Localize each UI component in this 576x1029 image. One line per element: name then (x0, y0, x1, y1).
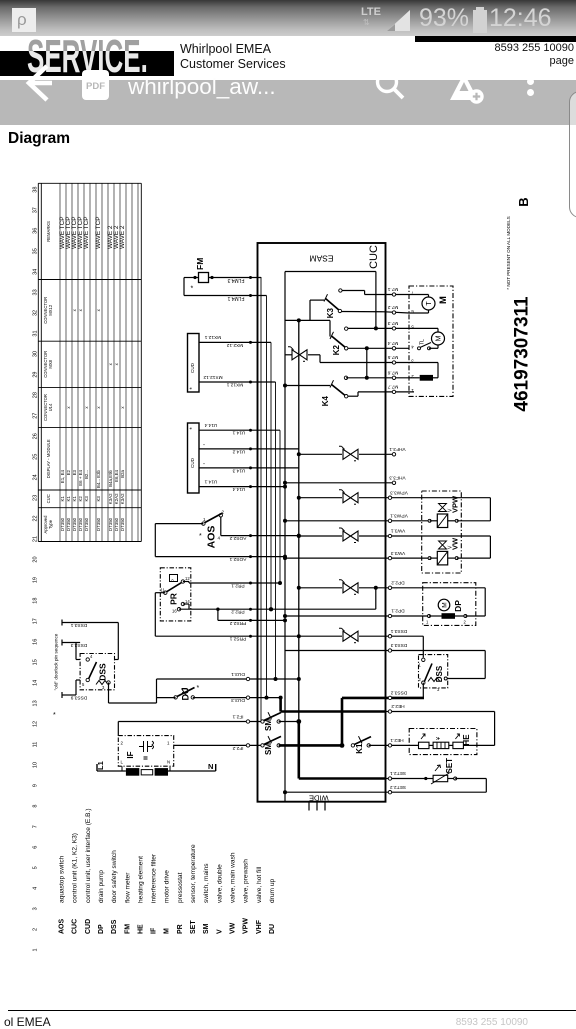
svg-text:VPW: VPW (451, 495, 460, 513)
svg-text:VHF3.3: VHF3.3 (389, 475, 406, 481)
wire U14.4 (199, 478, 287, 492)
svg-text:T: T (426, 301, 433, 306)
wire line bus L (296, 320, 385, 778)
svg-text:switch, mains: switch, mains (203, 863, 210, 903)
svg-text:x: x (114, 362, 119, 365)
board bottom connector stubs (309, 802, 325, 811)
connector MX12 (CUD) (188, 334, 200, 393)
svg-text:pressostat: pressostat (177, 872, 184, 903)
svg-text:U14.4: U14.4 (204, 422, 217, 428)
svg-text:M7.7: M7.7 (387, 384, 398, 390)
svg-text:interference filter: interference filter (151, 853, 158, 903)
svg-text:valve, prewash: valve, prewash (243, 859, 250, 903)
svg-text:PRS2.2: PRS2.2 (229, 620, 246, 626)
door safety switch DSS (right) (419, 655, 448, 692)
svg-text:DT350: DT350 (114, 517, 119, 531)
svg-text:HE2.2: HE2.2 (391, 703, 405, 709)
svg-text:M7.2: M7.2 (387, 304, 398, 310)
svg-text:AOS2.1: AOS2.1 (229, 556, 246, 562)
svg-text:M7.5: M7.5 (387, 354, 398, 360)
svg-text:B2...: B2... (84, 470, 89, 479)
status bar (0, 0, 576, 36)
svg-text:25: 25 (33, 454, 39, 460)
wire DSS3.1 with triac (299, 628, 424, 658)
wire K4 to M7.7 (348, 392, 359, 396)
svg-text:DISPLAY - MODULE: DISPLAY - MODULE (46, 439, 51, 478)
svg-text:U14.4: U14.4 (232, 486, 245, 492)
svg-text:DT350: DT350 (78, 517, 83, 531)
svg-text:HE: HE (462, 734, 471, 746)
svg-text:8: 8 (33, 805, 39, 808)
svg-text:2: 2 (121, 741, 124, 746)
svg-text:CUC: CUC (46, 494, 51, 503)
svg-text:VPW3.3: VPW3.3 (390, 489, 408, 495)
svg-text:1: 1 (167, 741, 170, 746)
svg-text:P: P (171, 579, 176, 582)
svg-text:DSS3.1: DSS3.1 (70, 622, 87, 628)
bottom footer of page (8, 1010, 576, 1012)
svg-text:16: 16 (33, 639, 39, 645)
mains switch SM contact 1 (261, 712, 299, 731)
svg-text:K1: K1 (355, 743, 364, 754)
relay K3 (324, 289, 342, 318)
svg-text:M7.4: M7.4 (387, 340, 398, 346)
wire M7.7 (358, 384, 414, 394)
svg-text:TL: TL (420, 339, 426, 345)
svg-text:MX12.1: MX12.1 (204, 334, 221, 340)
svg-text:M: M (441, 602, 448, 607)
svg-text:FM: FM (195, 258, 205, 270)
svg-text:PR2.1: PR2.1 (231, 582, 245, 588)
svg-text:DSS: DSS (98, 663, 108, 681)
svg-text:CUC: CUC (368, 245, 380, 269)
svg-text:WAVE TCP: WAVE TCP (83, 216, 90, 249)
svg-text:MX12.1: MX12.1 (226, 382, 243, 388)
pressostat PR (160, 568, 191, 621)
svg-text:14: 14 (185, 599, 190, 604)
svg-text:1: 1 (419, 663, 422, 668)
svg-text:12: 12 (33, 721, 39, 727)
svg-text:29: 29 (33, 372, 39, 378)
svg-text:3: 3 (33, 907, 39, 910)
svg-text:SM: SM (264, 719, 273, 731)
svg-text:DU: DU (181, 688, 191, 701)
svg-text:E2: E2 (66, 469, 71, 475)
svg-text:*: * (191, 286, 194, 293)
svg-text:20: 20 (33, 556, 39, 562)
wire M7.5 (320, 354, 409, 364)
svg-text:K2A2: K2A2 (114, 493, 119, 504)
wire PRS2.1 (155, 593, 300, 642)
svg-text:31: 31 (33, 330, 39, 336)
triac motor phase (285, 347, 320, 363)
svg-text:HE: HE (137, 924, 144, 934)
svg-text:27: 27 (33, 413, 39, 419)
svg-text:WAVE TCP: WAVE TCP (95, 216, 102, 249)
svg-text:1: 1 (203, 517, 206, 522)
wire U14.2 (199, 442, 299, 454)
svg-text:drain pump: drain pump (98, 870, 105, 903)
svg-text:37: 37 (33, 207, 39, 213)
svg-text:x: x (108, 362, 113, 365)
svg-text:IF2.1: IF2.1 (232, 714, 243, 720)
wire M7.6 (346, 348, 409, 380)
table approved-type / connector cross reference (38, 183, 141, 541)
wire VPW3.3 with triac (297, 489, 491, 520)
svg-text:15: 15 (33, 659, 39, 665)
svg-text:WIDE: WIDE (309, 794, 329, 803)
svg-text:M7.6: M7.6 (387, 370, 398, 376)
svg-text:flow meter: flow meter (124, 872, 131, 903)
wire DSS3.3 stub (old doorlock) (62, 640, 87, 660)
svg-text:19: 19 (33, 577, 39, 583)
svg-text:11: 11 (33, 742, 39, 748)
svg-text:*: * (53, 712, 56, 719)
svg-text:x: x (72, 308, 77, 311)
svg-text:x: x (96, 308, 101, 311)
wire FLM4.3 (184, 276, 261, 283)
svg-text:L1: L1 (96, 761, 105, 770)
svg-text:K1: K1 (66, 496, 71, 502)
valve prewash VPW (430, 495, 460, 528)
wire DSS3.3 (285, 642, 485, 678)
flow meter FM (191, 258, 209, 293)
svg-text:46197307311: 46197307311 (512, 296, 533, 412)
svg-text:2: 2 (222, 510, 225, 515)
svg-text:21: 21 (33, 536, 39, 542)
svg-text:CUD: CUD (190, 362, 195, 373)
tacho generator T (422, 295, 435, 314)
heating element HE dashed box (409, 729, 477, 755)
svg-text:K1: K1 (60, 496, 65, 502)
svg-text:M: M (438, 296, 449, 304)
legend abbreviation list (59, 808, 276, 934)
svg-text:K3: K3 (96, 496, 101, 502)
svg-text:30: 30 (33, 351, 39, 357)
wire K3 to M7.1 (342, 291, 365, 295)
svg-text:MX2.12: MX2.12 (226, 342, 243, 348)
svg-text:FM: FM (124, 924, 131, 934)
svg-text:x: x (84, 406, 89, 409)
motor M winding (409, 328, 445, 345)
svg-text:motor drive: motor drive (164, 870, 171, 903)
svg-text:drum up: drum up (269, 878, 276, 903)
svg-text:DT350: DT350 (60, 517, 65, 531)
svg-text:*: * (197, 685, 200, 692)
svg-text:*: * (190, 427, 196, 430)
svg-text:2: 2 (464, 620, 467, 625)
connector U14 (CUD) (188, 423, 200, 493)
svg-text:24: 24 (33, 474, 39, 480)
scrollbar pill (569, 91, 576, 218)
svg-text:V: V (216, 929, 223, 934)
svg-text:DU3.3: DU3.3 (231, 697, 245, 703)
svg-text:M: M (164, 928, 171, 934)
valve main wash VW (430, 537, 460, 565)
wire PRS2.2 (216, 608, 287, 626)
wire mains L1 feed (96, 761, 216, 775)
wire M7.3 (348, 320, 409, 330)
relay K1 (340, 736, 385, 754)
svg-text:VPW: VPW (243, 918, 250, 934)
svg-text:Type: Type (48, 519, 53, 529)
svg-text:SET2.2: SET2.2 (390, 784, 406, 790)
control unit board ESAM/CUC outline (258, 243, 386, 803)
svg-text:* NOT PRESENT ON ALL MODELS: * NOT PRESENT ON ALL MODELS (506, 216, 511, 289)
svg-text:-: - (203, 442, 205, 448)
aquastop switch AOS (199, 510, 225, 549)
wire M7.4 (348, 340, 409, 350)
svg-text:U14.1: U14.1 (204, 478, 217, 484)
wire signal bundle (261, 277, 282, 722)
svg-text:AOS2.2: AOS2.2 (229, 535, 246, 541)
svg-text:DT350: DT350 (120, 517, 125, 531)
svg-text:AOS: AOS (59, 919, 66, 935)
svg-text:5: 5 (33, 866, 39, 869)
svg-text:DT350: DT350 (72, 517, 77, 531)
svg-text:B2a: B2a (120, 469, 125, 477)
wire VHF3.1 with triac (297, 446, 406, 461)
svg-text:DT350: DT350 (66, 517, 71, 531)
relay K2 (330, 320, 348, 355)
wire U14.3 (199, 461, 299, 473)
wire U14.1 (199, 422, 280, 436)
wire SET2.1 thermistor (385, 758, 486, 784)
wire DSS3.2 bold (342, 690, 424, 746)
wire IF2.1 (118, 714, 262, 736)
svg-text:¥: ¥ (436, 736, 442, 740)
resistor motor protection (409, 363, 438, 381)
svg-text:13: 13 (33, 700, 39, 706)
valve double V dashed box (422, 491, 462, 573)
svg-text:DU3.1: DU3.1 (231, 671, 245, 677)
svg-text:K2: K2 (78, 496, 83, 502)
wire DU3.3 (157, 696, 283, 703)
svg-text:17: 17 (33, 618, 39, 624)
door safety switch DSS (left) (80, 654, 114, 691)
svg-text:MX8: MX8 (48, 359, 53, 368)
svg-text:K3: K3 (84, 496, 89, 502)
svg-text:E1, E4: E1, E4 (60, 469, 65, 483)
svg-text:1: 1 (426, 620, 429, 625)
svg-text:-: - (203, 461, 205, 467)
svg-text:DT350: DT350 (108, 517, 113, 531)
svg-text:VHF: VHF (256, 919, 263, 934)
svg-text:K3A2: K3A2 (120, 493, 125, 504)
svg-text:HE2.1: HE2.1 (390, 737, 404, 743)
svg-text:U14.1: U14.1 (232, 430, 245, 436)
svg-text:4: 4 (411, 345, 414, 350)
svg-text:sensor, temperature: sensor, temperature (190, 844, 197, 903)
svg-text:VW: VW (229, 922, 236, 934)
svg-text:U14.3: U14.3 (232, 467, 245, 473)
interference filter IF (118, 736, 173, 767)
svg-text:U14: U14 (48, 403, 53, 411)
svg-text:K2: K2 (332, 344, 341, 355)
svg-text:38: 38 (33, 187, 39, 193)
svg-text:x: x (120, 406, 125, 409)
svg-text:4: 4 (33, 887, 39, 890)
svg-text:K1: K1 (72, 496, 77, 502)
svg-text:SM: SM (203, 923, 210, 934)
node ruler column numbers 1-38 (33, 187, 39, 952)
svg-text:16: 16 (172, 609, 177, 614)
svg-text:B4a,E9b: B4a,E9b (108, 469, 113, 486)
svg-text:DT350: DT350 (84, 517, 89, 531)
svg-text:26: 26 (33, 433, 39, 439)
wire DSS pin3 to DU loop (109, 683, 157, 704)
svg-text:36: 36 (33, 228, 39, 234)
svg-text:34: 34 (33, 269, 39, 275)
svg-text:heating element: heating element (137, 856, 144, 903)
svg-text:ESAM: ESAM (309, 254, 333, 264)
svg-text:2: 2 (33, 928, 39, 931)
svg-text:B4... E3b: B4... E3b (96, 469, 101, 488)
svg-text:1: 1 (33, 948, 39, 951)
svg-text:aquastop switch: aquastop switch (59, 855, 66, 903)
PDF page header content (behind toolbar) (0, 36, 576, 166)
svg-text:N: N (208, 762, 213, 771)
svg-text:AOS: AOS (206, 526, 218, 549)
wire IF2.2 (174, 744, 263, 751)
mains switch SM contact 2 (261, 736, 342, 755)
thermal switch TL (418, 339, 439, 350)
svg-text:FLM4.1: FLM4.1 (227, 295, 244, 301)
svg-text:DSS3.3: DSS3.3 (70, 642, 87, 648)
wire AOS2.1 (155, 524, 287, 562)
svg-text:PR: PR (177, 924, 184, 934)
drain pump DP (423, 583, 476, 626)
svg-text:10: 10 (33, 762, 39, 768)
drum up switch DU (174, 685, 200, 701)
svg-text:DSS3.3: DSS3.3 (390, 642, 407, 648)
svg-text:M: M (436, 335, 443, 341)
wire FLM4.1 (184, 278, 267, 302)
wire M7.1 (365, 286, 429, 296)
svg-text:door safety switch: door safety switch (111, 850, 118, 903)
wire gate bus (285, 318, 330, 322)
svg-text:VW3.1: VW3.1 (390, 528, 405, 534)
svg-text:K4: K4 (321, 395, 330, 406)
svg-text:M7.3: M7.3 (387, 320, 398, 326)
svg-text:FLM4.3: FLM4.3 (227, 277, 244, 283)
wire HE2.1 heater string (385, 712, 495, 749)
svg-text:11: 11 (161, 588, 166, 593)
svg-text:33: 33 (33, 289, 39, 295)
svg-text:4: 4 (218, 536, 221, 541)
svg-text:N: N (167, 760, 170, 765)
svg-text:VW: VW (451, 537, 460, 550)
svg-text:35: 35 (33, 248, 39, 254)
wire DSS3.9 stub (old doorlock) (62, 680, 87, 700)
svg-text:CUC: CUC (72, 919, 79, 934)
svg-text:3: 3 (437, 687, 440, 692)
svg-text:2: 2 (419, 677, 422, 682)
svg-text:IF2.2: IF2.2 (232, 745, 243, 751)
svg-text:14: 14 (33, 680, 39, 686)
wire K3 feed (310, 300, 324, 320)
svg-text:U14.2: U14.2 (232, 448, 245, 454)
svg-text:SET: SET (190, 920, 197, 934)
svg-text:12: 12 (185, 576, 190, 581)
svg-text:K3: K3 (326, 307, 335, 318)
svg-text:9: 9 (33, 784, 39, 787)
svg-text:6: 6 (33, 846, 39, 849)
svg-text:E6 + E4: E6 + E4 (78, 469, 83, 485)
svg-text:DSS: DSS (111, 919, 118, 934)
svg-text:CUD: CUD (190, 457, 195, 468)
svg-text:B: B (516, 197, 531, 206)
svg-text:valve, hot fill: valve, hot fill (256, 866, 263, 903)
wire M7.2 (342, 304, 429, 314)
wire PR2.2 (179, 586, 378, 615)
wire neutral trace N-bus (285, 272, 378, 802)
svg-text:E6,E4: E6,E4 (114, 469, 119, 482)
svg-text:K3A2: K3A2 (108, 493, 113, 504)
svg-text:DSS: DSS (435, 665, 444, 682)
svg-text:DSS3.9: DSS3.9 (70, 694, 87, 700)
svg-text:IF: IF (151, 927, 158, 934)
svg-text:control unit (K1, K2, K3): control unit (K1, K2, K3) (72, 833, 79, 903)
wire VW3.1 with triac (297, 528, 491, 558)
svg-text:valve, double: valve, double (216, 864, 223, 903)
svg-text:DT350: DT350 (96, 517, 101, 531)
svg-text:L: L (121, 760, 124, 765)
svg-text:SET: SET (445, 758, 454, 774)
svg-text:x: x (66, 406, 71, 409)
svg-text:DSS3.1: DSS3.1 (390, 628, 407, 634)
wire DSS pin2 to DSS3.2 (422, 683, 424, 698)
svg-text:*: * (190, 387, 196, 390)
wire SET2.2 (283, 779, 486, 795)
svg-text:5: 5 (82, 682, 85, 687)
svg-text:DP2.1: DP2.1 (391, 608, 405, 614)
svg-text:28: 28 (33, 392, 39, 398)
svg-text:7: 7 (33, 825, 39, 828)
wire PR2.1 (183, 582, 280, 589)
relay K4 (283, 376, 348, 406)
svg-text:*: * (199, 533, 202, 540)
svg-text:"old" doorlock pin sequence: "old" doorlock pin sequence (54, 633, 59, 690)
svg-text:23: 23 (33, 495, 39, 501)
svg-text:VW3.3: VW3.3 (390, 550, 405, 556)
wire DSS3.1 stub (old doorlock) (62, 620, 118, 660)
svg-text:IF: IF (126, 751, 135, 758)
motor drive M dashed box (409, 286, 453, 396)
svg-text:E3: E3 (72, 469, 77, 475)
wire DU3.1 (157, 671, 301, 698)
svg-text:4: 4 (90, 654, 93, 659)
svg-text:DP: DP (98, 924, 105, 934)
svg-text:PR2.2: PR2.2 (231, 609, 245, 615)
wire VW3.3 (283, 550, 490, 560)
svg-text:SM: SM (264, 743, 273, 755)
svg-text:PRS2.1: PRS2.1 (229, 636, 246, 642)
svg-text:REMARKS: REMARKS (46, 221, 51, 242)
svg-text:DP: DP (453, 600, 463, 612)
wire VPW3.1 (283, 513, 490, 523)
svg-text:DU: DU (269, 924, 276, 934)
svg-text:MX12.12: MX12.12 (203, 374, 223, 380)
svg-text:VPW3.1: VPW3.1 (390, 513, 408, 519)
wire DP2.1 (283, 608, 485, 625)
svg-text:VHF3.1: VHF3.1 (389, 446, 406, 452)
svg-text:SET2.1: SET2.1 (390, 770, 406, 776)
wire HE2.2 bold (281, 698, 495, 714)
svg-text:PR: PR (169, 593, 179, 605)
svg-text:22: 22 (33, 515, 39, 521)
svg-text:DSS3.2: DSS3.2 (390, 690, 407, 696)
